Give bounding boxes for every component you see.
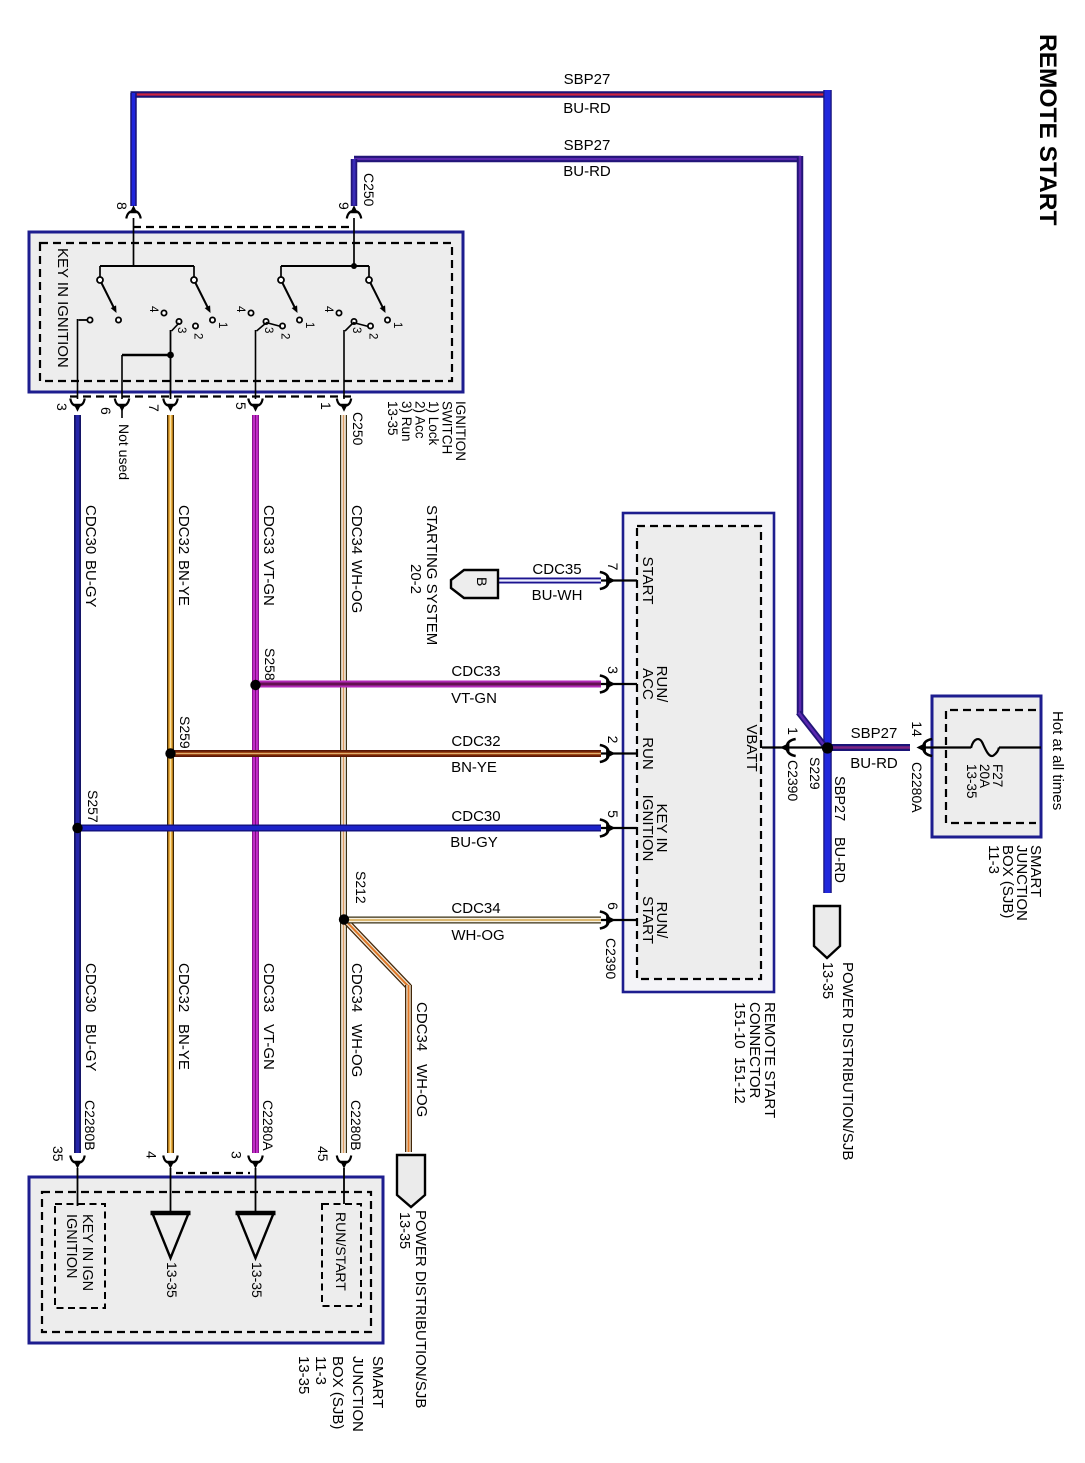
- svg-text:BU-RD: BU-RD: [831, 837, 847, 883]
- svg-text:S212: S212: [353, 871, 369, 904]
- svg-text:14: 14: [909, 721, 925, 737]
- svg-text:13-35: 13-35: [396, 1212, 412, 1249]
- svg-text:CDC32: CDC32: [175, 963, 192, 1012]
- svg-text:3) Run: 3) Run: [399, 401, 414, 442]
- svg-text:C2280A: C2280A: [260, 1100, 276, 1151]
- svg-text:3: 3: [605, 666, 621, 674]
- svg-text:CDC33: CDC33: [451, 663, 500, 680]
- svg-text:BU-RD: BU-RD: [850, 755, 898, 772]
- svg-text:WH-OG: WH-OG: [348, 1024, 365, 1077]
- svg-text:VBATT: VBATT: [743, 724, 760, 771]
- svg-text:1: 1: [391, 322, 403, 328]
- svg-text:13-35: 13-35: [964, 764, 979, 799]
- svg-text:BU-WH: BU-WH: [532, 587, 583, 604]
- svg-text:7: 7: [605, 563, 621, 571]
- svg-text:JUNCTION: JUNCTION: [349, 1356, 366, 1432]
- svg-text:11-3: 11-3: [985, 845, 1002, 874]
- svg-text:CDC34: CDC34: [413, 1002, 430, 1051]
- svg-text:POWER DISTRIBUTION/SJB: POWER DISTRIBUTION/SJB: [839, 962, 856, 1160]
- svg-text:C2280A: C2280A: [909, 762, 925, 813]
- svg-text:C2280B: C2280B: [82, 1100, 98, 1151]
- svg-text:KEY IN IGNITION: KEY IN IGNITION: [54, 248, 71, 368]
- svg-text:KEY IN IGN: KEY IN IGN: [79, 1214, 95, 1291]
- svg-text:RUN/START: RUN/START: [333, 1212, 349, 1291]
- svg-text:CDC35: CDC35: [532, 561, 581, 578]
- svg-text:SBP27: SBP27: [564, 137, 611, 154]
- svg-text:BU-GY: BU-GY: [82, 1024, 99, 1072]
- svg-text:VT-GN: VT-GN: [260, 560, 277, 606]
- svg-text:4: 4: [234, 306, 246, 313]
- svg-text:4: 4: [144, 1151, 160, 1159]
- svg-text:POWER DISTRIBUTION/SJB: POWER DISTRIBUTION/SJB: [412, 1210, 429, 1408]
- svg-text:C2390: C2390: [785, 760, 801, 801]
- svg-text:3: 3: [262, 327, 274, 333]
- svg-text:Hot at all times: Hot at all times: [1049, 711, 1066, 810]
- svg-text:BN-YE: BN-YE: [175, 560, 192, 606]
- svg-text:4: 4: [322, 306, 334, 313]
- svg-text:8: 8: [114, 202, 130, 210]
- svg-text:BU-RD: BU-RD: [563, 163, 611, 180]
- svg-text:3: 3: [350, 327, 362, 333]
- svg-text:CDC32: CDC32: [175, 505, 192, 554]
- svg-text:SMART: SMART: [369, 1356, 386, 1408]
- svg-text:BN-YE: BN-YE: [175, 1024, 192, 1070]
- svg-text:C250: C250: [350, 412, 366, 446]
- svg-text:SBP27: SBP27: [831, 776, 847, 821]
- svg-text:6: 6: [98, 407, 114, 415]
- svg-text:35: 35: [50, 1146, 66, 1162]
- svg-text:C250: C250: [361, 173, 377, 207]
- svg-text:REMOTE START: REMOTE START: [1034, 34, 1061, 225]
- svg-text:2: 2: [192, 333, 204, 339]
- svg-text:5: 5: [605, 810, 621, 818]
- svg-text:IGNITION: IGNITION: [63, 1214, 79, 1278]
- svg-text:SBP27: SBP27: [564, 71, 611, 88]
- svg-text:45: 45: [315, 1146, 331, 1162]
- svg-text:CDC33: CDC33: [260, 963, 277, 1012]
- svg-text:2: 2: [367, 333, 379, 339]
- svg-text:START: START: [639, 896, 656, 944]
- svg-text:BN-YE: BN-YE: [451, 759, 497, 776]
- svg-text:WH-OG: WH-OG: [451, 927, 504, 944]
- svg-text:C2390: C2390: [603, 938, 619, 979]
- svg-text:BU-GY: BU-GY: [450, 834, 498, 851]
- svg-text:151-10 151-12: 151-10 151-12: [731, 1002, 748, 1104]
- svg-text:CDC33: CDC33: [260, 505, 277, 554]
- svg-text:CDC30: CDC30: [82, 963, 99, 1012]
- svg-text:5: 5: [233, 402, 249, 410]
- svg-text:4: 4: [147, 306, 159, 313]
- svg-text:START: START: [639, 557, 656, 605]
- svg-text:C2280B: C2280B: [348, 1100, 364, 1151]
- svg-text:S259: S259: [177, 716, 193, 749]
- svg-text:VT-GN: VT-GN: [451, 690, 497, 707]
- svg-text:1: 1: [318, 402, 334, 410]
- svg-text:S229: S229: [807, 757, 823, 790]
- svg-text:BOX (SJB): BOX (SJB): [329, 1356, 346, 1429]
- svg-text:13-35: 13-35: [385, 401, 400, 436]
- svg-text:2: 2: [605, 736, 621, 744]
- svg-text:CDC30: CDC30: [451, 808, 500, 825]
- svg-text:BU-GY: BU-GY: [82, 560, 99, 608]
- svg-text:VT-GN: VT-GN: [260, 1024, 277, 1070]
- svg-text:WH-OG: WH-OG: [413, 1064, 430, 1117]
- svg-text:S258: S258: [262, 648, 278, 681]
- svg-text:CDC34: CDC34: [348, 505, 365, 554]
- svg-text:ACC: ACC: [639, 668, 656, 700]
- svg-text:13-35: 13-35: [819, 962, 835, 999]
- svg-text:RUN: RUN: [639, 737, 656, 770]
- svg-text:CDC34: CDC34: [348, 963, 365, 1012]
- svg-text:6: 6: [605, 902, 621, 910]
- svg-text:2: 2: [279, 333, 291, 339]
- svg-text:CDC34: CDC34: [451, 900, 500, 917]
- svg-text:CDC30: CDC30: [82, 505, 99, 554]
- svg-text:CDC32: CDC32: [451, 733, 500, 750]
- svg-text:IGNITION: IGNITION: [639, 795, 656, 862]
- svg-text:1: 1: [303, 322, 315, 328]
- svg-text:SBP27: SBP27: [851, 725, 898, 742]
- svg-text:B: B: [474, 577, 490, 586]
- svg-text:13-35: 13-35: [295, 1356, 312, 1394]
- svg-text:S257: S257: [85, 790, 101, 823]
- svg-text:1: 1: [785, 727, 801, 735]
- svg-text:3: 3: [229, 1151, 245, 1159]
- svg-text:BU-RD: BU-RD: [563, 100, 611, 117]
- svg-text:1: 1: [216, 322, 228, 328]
- svg-text:13-35: 13-35: [164, 1262, 180, 1298]
- svg-text:WH-OG: WH-OG: [348, 560, 365, 613]
- svg-text:3: 3: [175, 327, 187, 333]
- svg-text:STARTING SYSTEM: STARTING SYSTEM: [423, 505, 440, 645]
- svg-text:13-35: 13-35: [249, 1262, 265, 1298]
- svg-text:9: 9: [336, 202, 352, 210]
- svg-text:11-3: 11-3: [312, 1356, 329, 1385]
- svg-text:3: 3: [54, 403, 70, 411]
- svg-text:Not used: Not used: [116, 424, 132, 480]
- svg-text:20-2: 20-2: [407, 564, 424, 594]
- svg-text:7: 7: [146, 404, 162, 412]
